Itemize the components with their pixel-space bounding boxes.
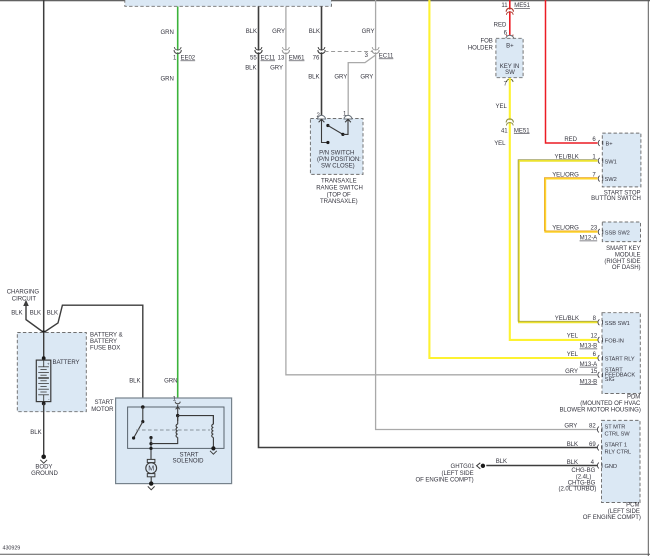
label BLK (start motor branch) bbox=[47, 311, 58, 317]
svg-text:GRY: GRY bbox=[564, 424, 577, 430]
svg-text:TRANSAXLE): TRANSAXLE) bbox=[320, 199, 358, 205]
svg-text:YEL: YEL bbox=[567, 352, 579, 358]
svg-text:OF ENGINE COMPT): OF ENGINE COMPT) bbox=[583, 515, 641, 521]
svg-text:YEL/ORG: YEL/ORG bbox=[552, 226, 579, 232]
label BODY GROUND bbox=[31, 464, 58, 477]
pin bracket SSB SW1 bbox=[598, 319, 603, 325]
wire pin1 lead inside switch bbox=[343, 120, 348, 135]
svg-text:CIRCUIT: CIRCUIT bbox=[12, 297, 37, 303]
label RED bbox=[494, 23, 507, 29]
label YEL/BLK at SW1 bbox=[555, 155, 579, 161]
svg-text:1: 1 bbox=[173, 56, 177, 62]
wire YEL to PDM START RLY bbox=[429, 0, 597, 358]
svg-text:PCM: PCM bbox=[626, 503, 639, 509]
pin bracket ST MTR CTRL SW bbox=[597, 427, 602, 433]
wire BLK branch to charging circuit with arrow bbox=[23, 300, 44, 333]
svg-text:(2.0L TURBO): (2.0L TURBO) bbox=[558, 486, 596, 492]
P/N switch arm bbox=[328, 126, 343, 135]
svg-text:FUSE BOX: FUSE BOX bbox=[90, 346, 120, 352]
pin bracket START 1 RLY CTRL bbox=[597, 445, 602, 451]
battery B1 bbox=[36, 360, 51, 402]
svg-text:(P/N POSITION:: (P/N POSITION: bbox=[317, 157, 361, 163]
svg-text:B+: B+ bbox=[506, 44, 514, 50]
label BLK near GHTG01 bbox=[496, 459, 507, 465]
label YEL/ORG at SW2 bbox=[552, 172, 579, 178]
label GND bbox=[605, 464, 618, 470]
svg-text:13: 13 bbox=[278, 56, 285, 62]
pin number 82 PCM bbox=[589, 424, 596, 430]
svg-text:(LEFT SIDE: (LEFT SIDE bbox=[608, 509, 640, 515]
label SMART KEY MODULE (RIGHT SIDE OF DASH) bbox=[604, 246, 640, 271]
pin number 8 PDM bbox=[593, 316, 597, 322]
label START 1 RLY CTRL bbox=[605, 442, 632, 455]
svg-text:GROUND: GROUND bbox=[31, 471, 58, 477]
svg-text:M13-B: M13-B bbox=[580, 379, 598, 385]
svg-text:EE02: EE02 bbox=[181, 56, 196, 62]
svg-text:BATTERY: BATTERY bbox=[53, 360, 80, 366]
wire pin1 to coil node bbox=[177, 405, 179, 422]
svg-text:BATTERY: BATTERY bbox=[90, 339, 117, 345]
wire RED to start stop button switch B+ bbox=[546, 0, 598, 143]
pin bracket FOB-IN bbox=[598, 337, 603, 343]
svg-text:ST MTR: ST MTR bbox=[605, 425, 626, 431]
ground hold-in coil bbox=[210, 446, 217, 454]
svg-text:55: 55 bbox=[250, 56, 257, 62]
svg-text:CHG-BG: CHG-BG bbox=[571, 468, 595, 474]
wire pin2 lead inside switch bbox=[322, 120, 328, 143]
node frame bottom junction bbox=[149, 447, 152, 450]
connector M13-A (START RLY) bbox=[580, 362, 599, 368]
label START RLY bbox=[605, 357, 635, 363]
svg-text:GRN: GRN bbox=[164, 379, 177, 385]
svg-text:RED: RED bbox=[494, 23, 507, 29]
svg-text:(RIGHT SIDE: (RIGHT SIDE bbox=[604, 259, 640, 265]
svg-text:SSB SW1: SSB SW1 bbox=[605, 321, 630, 327]
pin number 1 start stop switch bbox=[592, 155, 596, 161]
label BLK above connector bbox=[309, 29, 320, 35]
svg-text:OF ENGINE COMPT): OF ENGINE COMPT) bbox=[415, 478, 473, 484]
pin 1 transaxle range switch bbox=[343, 112, 352, 123]
svg-text:BLK: BLK bbox=[47, 311, 58, 317]
label START SOLENOID bbox=[173, 452, 205, 464]
svg-text:PDM: PDM bbox=[627, 395, 640, 401]
key-in switch inside FOB holder bbox=[500, 64, 519, 76]
svg-text:START: START bbox=[179, 452, 198, 458]
label FOB HOLDER bbox=[468, 39, 494, 52]
svg-text:69: 69 bbox=[589, 442, 596, 448]
wire YEL/BLK SW1 to PDM SSB SW1 bbox=[518, 160, 598, 323]
wire YEL/ORG SW2 to smart key module bbox=[544, 178, 597, 232]
svg-text:GRN: GRN bbox=[160, 30, 173, 36]
svg-text:CTRL SW: CTRL SW bbox=[605, 432, 631, 438]
wire GRY to PCM ST MTR CTRL SW bbox=[376, 0, 598, 430]
pin bracket B+ bbox=[598, 140, 603, 146]
svg-text:+: + bbox=[47, 361, 50, 366]
pin number 23 smart key module bbox=[591, 226, 598, 232]
svg-text:SW1: SW1 bbox=[605, 159, 617, 165]
svg-text:MOTOR: MOTOR bbox=[91, 407, 114, 413]
FOB holder box bbox=[496, 38, 523, 77]
svg-text:BLK: BLK bbox=[309, 29, 320, 35]
PDM box bbox=[602, 313, 640, 394]
svg-text:START RLY: START RLY bbox=[605, 357, 635, 363]
label YEL at START RLY bbox=[567, 352, 579, 358]
label B+ bbox=[606, 142, 614, 148]
wire GRY to PDM START FEEDBACK SIG bbox=[286, 7, 598, 375]
label CHG-BG (2.4L) CHTG-BG (2.0L TURBO) bbox=[558, 468, 596, 493]
label SW1 bbox=[605, 159, 617, 165]
svg-text:GRY: GRY bbox=[360, 75, 373, 81]
pin number 6 PDM bbox=[593, 352, 597, 358]
svg-text:(2.4L): (2.4L) bbox=[576, 474, 592, 480]
svg-text:(TOP OF: (TOP OF bbox=[327, 193, 351, 199]
label CHARGING CIRCUIT bbox=[7, 290, 40, 303]
label GHTG01 bbox=[451, 464, 476, 470]
svg-text:TRANSAXLE: TRANSAXLE bbox=[321, 178, 357, 184]
battery & battery fuse box bbox=[17, 333, 86, 412]
wire BLK battery feed vertical bbox=[43, 0, 45, 333]
svg-text:B+: B+ bbox=[606, 142, 614, 148]
wire BLK feed into switch bbox=[142, 407, 144, 422]
svg-text:GHTG01: GHTG01 bbox=[451, 464, 476, 470]
svg-text:CHARGING: CHARGING bbox=[7, 290, 40, 296]
svg-text:EC11: EC11 bbox=[261, 56, 276, 62]
svg-text:SMART KEY: SMART KEY bbox=[606, 246, 640, 252]
svg-text:M13-B: M13-B bbox=[580, 344, 598, 350]
top component box (cut off) bbox=[125, 0, 332, 6]
wire RED to FOB holder bbox=[509, 0, 511, 36]
svg-text:OF DASH): OF DASH) bbox=[612, 265, 641, 271]
node switch pivot bbox=[141, 420, 144, 423]
svg-text:SSB SW2: SSB SW2 bbox=[605, 230, 630, 236]
label BLK below connector bbox=[245, 66, 256, 72]
svg-text:EC11: EC11 bbox=[379, 54, 394, 60]
label BLK at GND bbox=[567, 460, 578, 466]
svg-text:GRY: GRY bbox=[362, 29, 375, 35]
connector 13 EM61 bbox=[278, 47, 305, 62]
pin 1 start solenoid bbox=[173, 397, 181, 410]
label GRN at solenoid bbox=[164, 379, 177, 385]
wire BLK to PCM START 1 RLY CTRL bbox=[259, 7, 598, 448]
pin bracket START FEEDBACK SIG bbox=[598, 372, 603, 378]
svg-text:YEL: YEL bbox=[494, 141, 506, 147]
page frame top border bbox=[0, 0, 650, 2]
ground body ground G1 bbox=[40, 455, 47, 464]
page frame right border bbox=[647, 0, 649, 556]
node junction at battery top bbox=[42, 331, 46, 335]
svg-text:BLK: BLK bbox=[308, 75, 319, 81]
svg-text:BLOWER MOTOR HOUSING): BLOWER MOTOR HOUSING) bbox=[559, 407, 640, 413]
svg-text:BUTTON SWITCH: BUTTON SWITCH bbox=[591, 196, 641, 202]
svg-text:M12-A: M12-A bbox=[580, 236, 599, 242]
svg-text:BLK: BLK bbox=[496, 459, 507, 465]
label SSB SW2 bbox=[605, 230, 630, 236]
svg-text:82: 82 bbox=[589, 424, 596, 430]
svg-text:YEL/ORG: YEL/ORG bbox=[552, 172, 579, 178]
label GRY above connector bbox=[362, 29, 375, 35]
node upper contact bbox=[326, 124, 329, 127]
svg-text:BLK: BLK bbox=[567, 442, 578, 448]
svg-text:YEL: YEL bbox=[495, 104, 507, 110]
PCM box bbox=[602, 420, 641, 502]
label GRY below connector (right) bbox=[360, 75, 373, 81]
svg-text:BLK: BLK bbox=[30, 311, 41, 317]
pin number 4 PCM bbox=[591, 460, 595, 466]
svg-text:6: 6 bbox=[593, 352, 597, 358]
svg-text:GRY: GRY bbox=[334, 75, 347, 81]
svg-text:SOLENOID: SOLENOID bbox=[173, 459, 205, 465]
svg-text:EM61: EM61 bbox=[289, 56, 305, 62]
label START STOP BUTTON SWITCH bbox=[591, 191, 641, 202]
svg-text:FOB-IN: FOB-IN bbox=[605, 338, 624, 344]
label SSB SW1 bbox=[605, 321, 630, 327]
wire YEL from FOB holder to PDM FOB-IN bbox=[510, 78, 598, 340]
svg-text:(MOUNTED OF HVAC: (MOUNTED OF HVAC bbox=[580, 401, 641, 407]
solenoid hold-in coil bbox=[212, 416, 214, 449]
label GRY at ST MTR CTRL SW bbox=[564, 424, 577, 430]
svg-text:GRN: GRN bbox=[160, 77, 173, 83]
label (LEFT SIDE OF ENGINE COMPT) at GHTG01 bbox=[415, 471, 473, 483]
label RED at B+ bbox=[564, 137, 577, 143]
svg-text:SW2: SW2 bbox=[605, 177, 617, 183]
svg-text:RED: RED bbox=[564, 137, 577, 143]
svg-text:12: 12 bbox=[591, 334, 598, 340]
svg-text:FOB: FOB bbox=[480, 39, 492, 45]
svg-text:START: START bbox=[94, 400, 113, 406]
svg-text:ME51: ME51 bbox=[514, 3, 530, 9]
label YEL/BLK at SSB SW1 bbox=[555, 316, 579, 322]
label YEL lower bbox=[494, 141, 506, 147]
smart key module box bbox=[602, 222, 640, 242]
svg-text:MODULE: MODULE bbox=[615, 252, 641, 258]
svg-text:SIG: SIG bbox=[605, 377, 615, 383]
label BATTERY bbox=[53, 360, 80, 366]
svg-text:RANGE SWITCH: RANGE SWITCH bbox=[316, 186, 363, 192]
svg-text:RLY CTRL: RLY CTRL bbox=[605, 449, 632, 455]
svg-text:3: 3 bbox=[365, 53, 369, 59]
wire BLK battery to body ground bbox=[43, 404, 45, 457]
connector M13-B (FOB-IN) bbox=[580, 344, 598, 350]
wire BLK branch to start motor bbox=[44, 305, 143, 407]
svg-text:BODY: BODY bbox=[35, 464, 52, 470]
connector M12-A bbox=[580, 236, 599, 242]
svg-text:6: 6 bbox=[592, 137, 596, 143]
transaxle range switch box bbox=[310, 119, 363, 175]
label B+ (FOB holder) bbox=[506, 44, 514, 50]
pin bracket SW1 bbox=[598, 158, 603, 164]
svg-text:23: 23 bbox=[591, 226, 598, 232]
svg-text:BATTERY &: BATTERY & bbox=[90, 333, 123, 339]
label YEL/ORG at SSB SW2 bbox=[552, 226, 579, 232]
svg-text:76: 76 bbox=[313, 56, 320, 62]
svg-text:START 1: START 1 bbox=[605, 442, 627, 448]
svg-text:15: 15 bbox=[591, 369, 598, 375]
connector 41 ME51 bbox=[501, 119, 530, 134]
label START FEEDBACK SIG bbox=[605, 368, 636, 383]
wire to hold-in coil bbox=[178, 416, 214, 425]
pin number 6 start stop switch bbox=[592, 137, 596, 143]
wire GRY branch to transaxle range switch pin 1 bbox=[348, 55, 375, 115]
label GRN lower bbox=[160, 77, 173, 83]
label GRY below connector bbox=[270, 66, 283, 72]
node solenoid coil feed bbox=[176, 414, 179, 417]
wire into battery bbox=[43, 333, 45, 361]
pin number 12 PDM bbox=[591, 334, 598, 340]
label BLK at start motor feed bbox=[129, 379, 140, 385]
svg-text:GND: GND bbox=[605, 464, 618, 470]
svg-text:GRY: GRY bbox=[565, 369, 578, 375]
node battery negative terminal bbox=[42, 402, 46, 406]
pin bracket SSB SW2 bbox=[598, 229, 603, 235]
node arm end bbox=[341, 133, 344, 136]
pin 2 transaxle range switch bbox=[316, 113, 325, 122]
label BLK bbox=[30, 430, 41, 436]
svg-text:GRY: GRY bbox=[272, 29, 285, 35]
connector 1 EE02 bbox=[173, 47, 196, 62]
connector 3 EC11 bbox=[365, 47, 394, 60]
pin 6 FOB holder bbox=[504, 31, 514, 39]
label BLK above connector bbox=[246, 29, 257, 35]
label BLK at START 1 RLY CTRL bbox=[567, 442, 578, 448]
node fixed contact bbox=[149, 436, 152, 439]
svg-text:7: 7 bbox=[504, 82, 508, 88]
svg-text:M13-A: M13-A bbox=[580, 362, 599, 368]
node BLK feed junction bbox=[141, 405, 145, 409]
mechanical linkage dashed bbox=[136, 429, 210, 431]
label P/N SWITCH (P/N POSITION: SW CLOSE) bbox=[317, 150, 361, 169]
svg-text:GRY: GRY bbox=[270, 66, 283, 72]
start motor box bbox=[116, 398, 232, 484]
label GRY above connector bbox=[272, 29, 285, 35]
motor M1 bbox=[146, 459, 157, 483]
node coil tap junction bbox=[149, 442, 152, 445]
solenoid pull-in coil bbox=[151, 416, 178, 444]
label ST MTR CTRL SW bbox=[605, 425, 631, 438]
svg-text:BLK: BLK bbox=[245, 66, 256, 72]
ground start motor bbox=[148, 481, 155, 489]
label BLK (battery feed) bbox=[30, 311, 41, 317]
node arm tip bbox=[132, 436, 135, 439]
svg-text:430929: 430929 bbox=[3, 546, 21, 552]
label FOB-IN bbox=[605, 338, 624, 344]
svg-text:M: M bbox=[148, 465, 154, 473]
start stop button switch box bbox=[602, 133, 641, 187]
svg-text:YEL/BLK: YEL/BLK bbox=[555, 316, 579, 322]
svg-text:(LEFT SIDE: (LEFT SIDE bbox=[442, 471, 474, 477]
svg-text:SW CLOSE): SW CLOSE) bbox=[321, 163, 355, 169]
label BATTERY & BATTERY FUSE BOX bbox=[90, 333, 123, 352]
ground GHTG01 bbox=[477, 463, 485, 469]
svg-text:ME51: ME51 bbox=[514, 128, 530, 134]
svg-text:BLK: BLK bbox=[11, 311, 22, 317]
svg-text:SW: SW bbox=[505, 70, 515, 76]
label GRN upper bbox=[160, 30, 173, 36]
svg-text:YEL: YEL bbox=[567, 334, 579, 340]
svg-text:11: 11 bbox=[501, 3, 508, 9]
drawing number 430929 bbox=[3, 546, 21, 552]
pin bracket START RLY bbox=[598, 355, 603, 361]
node lower contact bbox=[326, 141, 329, 144]
solenoid contact switch arm bbox=[134, 422, 143, 438]
label BLK (charging branch) bbox=[11, 311, 22, 317]
pin bracket GND bbox=[597, 463, 602, 469]
svg-text:BLK: BLK bbox=[129, 379, 140, 385]
label YEL at FOB-IN bbox=[567, 334, 579, 340]
connector link dashed 76 to 3 bbox=[325, 51, 374, 53]
connector M13-B (START FEEDBACK SIG) bbox=[580, 379, 598, 385]
svg-text:YEL/BLK: YEL/BLK bbox=[555, 155, 579, 161]
label START MOTOR bbox=[91, 400, 114, 413]
label BLK below connector bbox=[308, 75, 319, 81]
svg-text:HOLDER: HOLDER bbox=[468, 45, 494, 51]
label GRY below connector (left) bbox=[334, 75, 347, 81]
label PDM (MOUNTED OF HVAC BLOWER MOTOR HOUSING) bbox=[559, 395, 641, 414]
node battery positive terminal bbox=[42, 356, 46, 360]
wire fixed contact to motor bbox=[150, 438, 152, 460]
wire GRN from top box to start solenoid bbox=[177, 7, 179, 404]
pin bracket SW2 bbox=[598, 176, 603, 182]
svg-text:41: 41 bbox=[501, 128, 508, 134]
svg-text:KEY IN: KEY IN bbox=[500, 64, 519, 70]
connector 76 bbox=[313, 47, 326, 62]
label SW2 bbox=[605, 177, 617, 183]
label GRY at START FEEDBACK SIG bbox=[565, 369, 578, 375]
pin number 15 PDM bbox=[591, 369, 598, 375]
svg-text:BLK: BLK bbox=[30, 430, 41, 436]
connector 11 ME51 bbox=[501, 3, 530, 15]
label YEL upper bbox=[495, 104, 507, 110]
page frame bottom border bbox=[0, 553, 650, 555]
pin 7 FOB holder bbox=[504, 79, 513, 87]
wire BLK to transaxle range switch pin 2 bbox=[321, 7, 323, 116]
label TRANSAXLE RANGE SWITCH (TOP OF TRANSAXLE) bbox=[316, 178, 363, 205]
label PCM (LEFT SIDE OF ENGINE COMPT) bbox=[583, 503, 641, 522]
solenoid inner frame bbox=[128, 407, 224, 448]
svg-text:BLK: BLK bbox=[246, 29, 257, 35]
connector 55 EC11 bbox=[250, 47, 276, 62]
wire BLK GHTG01 to PCM GND bbox=[486, 465, 597, 467]
svg-text:P/N SWITCH: P/N SWITCH bbox=[319, 150, 354, 156]
pin number 69 PCM bbox=[589, 442, 596, 448]
pin number 7 start stop switch bbox=[592, 172, 596, 178]
